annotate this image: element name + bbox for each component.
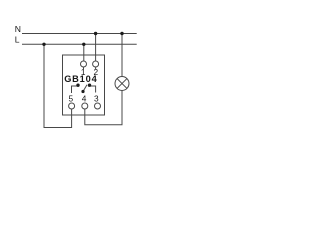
wire L line — [22, 43, 137, 45]
terminal 2 stub — [95, 67, 97, 69]
contact: switch arm — [83, 85, 87, 92]
junction dot N/terminal2 — [94, 32, 97, 35]
junction dot L/left — [42, 43, 45, 46]
relay box GB104 outline — [63, 55, 105, 115]
wire from L down left side — [44, 44, 72, 127]
contact: terminal 3 side bracket — [90, 86, 96, 93]
contact fixed dot left — [76, 84, 79, 87]
svg-text:3: 3 — [94, 93, 99, 103]
wire N to terminal 2 — [95, 34, 97, 62]
terminal 4 circle — [82, 103, 88, 109]
contact pivot dot — [81, 90, 84, 93]
svg-text:L: L — [15, 35, 20, 45]
terminal 3 circle — [95, 103, 101, 109]
terminal 2 circle — [93, 61, 99, 67]
junction dot L/terminal1 — [82, 43, 85, 46]
wire N to lamp — [121, 34, 123, 77]
terminal 1 circle — [81, 61, 87, 67]
lamp E1 — [115, 77, 129, 91]
wire lamp to terminal 4 — [85, 91, 122, 125]
junction dot N/lamp — [120, 32, 123, 35]
contact: terminal 5 side bracket — [72, 86, 78, 93]
svg-text:GB104: GB104 — [64, 74, 97, 84]
terminal 5 circle — [69, 103, 75, 109]
contact fixed dot right — [88, 84, 91, 87]
svg-text:N: N — [15, 24, 21, 34]
wire N line — [22, 33, 137, 35]
terminal 1 stub — [83, 67, 85, 69]
svg-text:5: 5 — [68, 93, 73, 103]
svg-text:4: 4 — [82, 93, 87, 103]
wire L to terminal 1 — [83, 44, 85, 61]
